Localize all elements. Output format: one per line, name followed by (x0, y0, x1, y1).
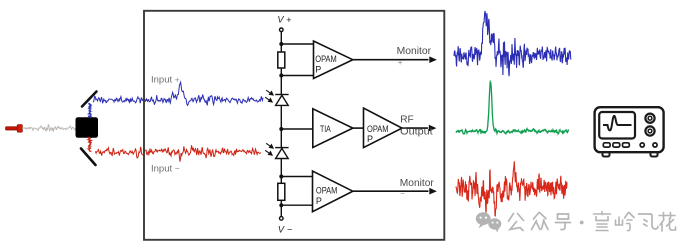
svg-text:Output: Output (400, 126, 433, 137)
svg-text:OPAM: OPAM (315, 54, 337, 64)
node B junction (279, 74, 283, 78)
wire node E to op-amp U3 inverting input (281, 204, 312, 206)
watermark WeChat logo (476, 212, 501, 232)
op-amp U3 output wire with arrowhead (353, 190, 429, 192)
input - signal trace (red) (95, 145, 261, 161)
resistor R2 (278, 183, 285, 200)
node D junction (279, 175, 283, 179)
wire R1 to node B (280, 68, 282, 76)
svg-text:RF: RF (400, 115, 414, 126)
monitor - output trace (red) (456, 161, 567, 216)
input + signal trace (blue) (93, 82, 263, 105)
oscilloscope icon (595, 107, 664, 156)
node V- terminal (280, 217, 284, 221)
monitor + output trace (blue) (454, 11, 571, 76)
op-amp U1 output wire with arrowhead (353, 59, 429, 61)
watermark text hao (556, 214, 571, 230)
wire node D to resistor R2 (280, 177, 282, 184)
wire V+ terminal to node A (280, 32, 282, 44)
svg-text:+: + (286, 15, 291, 25)
svg-text:V: V (277, 15, 284, 25)
mirror M2 (bottom) (81, 149, 96, 166)
resistor R1 (278, 52, 285, 68)
wire node C to photodiode D2 cathode (280, 129, 282, 148)
watermark text xue (594, 212, 611, 231)
wire node E to V- terminal (280, 205, 282, 217)
wire node A to resistor R1 (280, 44, 282, 52)
beam cube to mirror M1 (blue vertical noisy) (88, 103, 92, 118)
wire node C to TIA input (281, 128, 313, 130)
svg-text:P: P (315, 64, 321, 74)
op-amp U3 (313, 171, 353, 212)
svg-text:P: P (367, 134, 373, 144)
watermark text gong (509, 214, 524, 231)
RF output trace (green) (456, 82, 569, 134)
wire TIA output to op-amp U2 (353, 127, 364, 129)
svg-text:Monitor: Monitor (400, 178, 435, 189)
wire node B to photodiode D1 cathode (280, 76, 282, 95)
watermark text zhong (532, 213, 549, 230)
wire node A to op-amp U1 noninverting input (281, 43, 313, 45)
svg-text:Input −: Input − (151, 164, 180, 175)
svg-text:P: P (316, 196, 322, 206)
beam cube to mirror M2 (red vertical noisy) (88, 137, 92, 152)
wire node B to op-amp U1 inverting input (281, 75, 313, 77)
svg-text:+: + (398, 58, 403, 67)
node E junction (279, 203, 283, 207)
op-amp U2 (364, 108, 403, 148)
svg-text:V: V (278, 224, 285, 234)
laser beam (gray noisy line) (22, 125, 76, 132)
op-amp U1 (314, 41, 353, 79)
wire node D to op-amp U3 noninverting input (281, 176, 312, 178)
svg-text:Input +: Input + (151, 75, 180, 86)
amplifier TIA (313, 109, 353, 148)
svg-text:OPAM: OPAM (316, 186, 338, 196)
node V+ terminal (280, 28, 284, 32)
svg-text:TIA: TIA (320, 124, 331, 134)
node A junction (279, 42, 283, 46)
watermark text ling (616, 213, 635, 231)
circuit enclosure box (144, 11, 444, 240)
photodiode D1 (275, 95, 288, 130)
svg-text:Monitor: Monitor (397, 46, 432, 57)
svg-text:OPAM: OPAM (367, 124, 389, 134)
op-amp U2 output wire with arrowhead (402, 127, 428, 129)
svg-text:−: − (400, 189, 405, 198)
laser source (6, 125, 23, 133)
beamsplitter cube (black) (76, 117, 99, 138)
mirror M1 (top) (82, 92, 97, 107)
watermark middle dot (580, 221, 584, 225)
light arrows into D1 (265, 90, 273, 102)
photodiode D2 (275, 148, 288, 177)
node C junction (279, 127, 283, 131)
wire R2 to node E (280, 200, 282, 205)
watermark text hua (659, 213, 676, 232)
watermark text fei (639, 214, 659, 229)
light arrows into D2 (265, 143, 273, 155)
svg-text:−: − (287, 224, 292, 234)
